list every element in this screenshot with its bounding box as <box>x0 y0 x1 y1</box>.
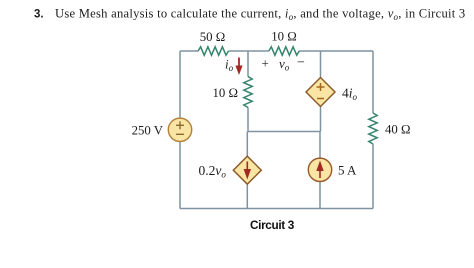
wire: branch2 5A to bottom <box>319 182 321 209</box>
dependent source 0.2vo (diamond, down arrow) <box>233 156 261 184</box>
resistor 40ohm <box>369 113 377 144</box>
svg-text:−: − <box>297 56 305 71</box>
wire: branch2 top lead <box>320 51 322 78</box>
voltage source 250V <box>168 118 191 141</box>
svg-text:vo: vo <box>279 56 290 73</box>
wire: middle branch1 top lead <box>247 51 249 77</box>
wire: middle branch1 midwire to diamond <box>246 132 248 157</box>
svg-text:10 Ω: 10 Ω <box>271 30 297 44</box>
wire: right branch upper <box>372 51 374 113</box>
svg-text:4io: 4io <box>342 86 358 103</box>
wire: middle branch1 diamond to bottom <box>246 184 248 208</box>
wire: bottom wire <box>180 208 373 210</box>
svg-text:Circuit 3: Circuit 3 <box>250 218 295 232</box>
svg-text:10 Ω: 10 Ω <box>212 86 238 100</box>
svg-text:0.2vo: 0.2vo <box>199 163 227 180</box>
svg-text:+: + <box>262 56 269 71</box>
wire: right branch lower <box>372 144 374 209</box>
wire: middle horizontal wire <box>248 131 321 133</box>
wire: branch2 midwire to 5A <box>319 132 321 159</box>
wire: middle branch1 between resistor and mid wire <box>247 108 249 132</box>
title text <box>34 7 465 23</box>
svg-text:3.: 3. <box>34 9 44 21</box>
dependent source 4io (diamond) <box>306 78 335 107</box>
wire: top wire between 50ohm and 10ohm <box>229 50 269 52</box>
wire: left branch lower <box>179 142 181 209</box>
wire: left branch <box>179 51 181 118</box>
svg-text:io: io <box>225 57 234 74</box>
svg-text:Use Mesh analysis to calculate: Use Mesh analysis to calculate the curre… <box>55 7 465 23</box>
current arrow io (red, down) <box>235 58 242 76</box>
resistor R 50ohm <box>198 47 228 55</box>
svg-text:50 Ω: 50 Ω <box>200 30 226 44</box>
wire: branch2 diamond to midwire <box>320 107 322 132</box>
wire: top wire right segment <box>299 50 373 52</box>
current source 5A (circle, up arrow) <box>308 158 331 181</box>
svg-text:40 Ω: 40 Ω <box>385 123 411 137</box>
svg-text:5 A: 5 A <box>338 163 357 178</box>
resistor 10ohm vertical <box>244 77 252 108</box>
resistor 10ohm top <box>269 47 299 55</box>
wire: top wire left segment <box>180 50 198 52</box>
svg-text:250 V: 250 V <box>132 124 164 138</box>
